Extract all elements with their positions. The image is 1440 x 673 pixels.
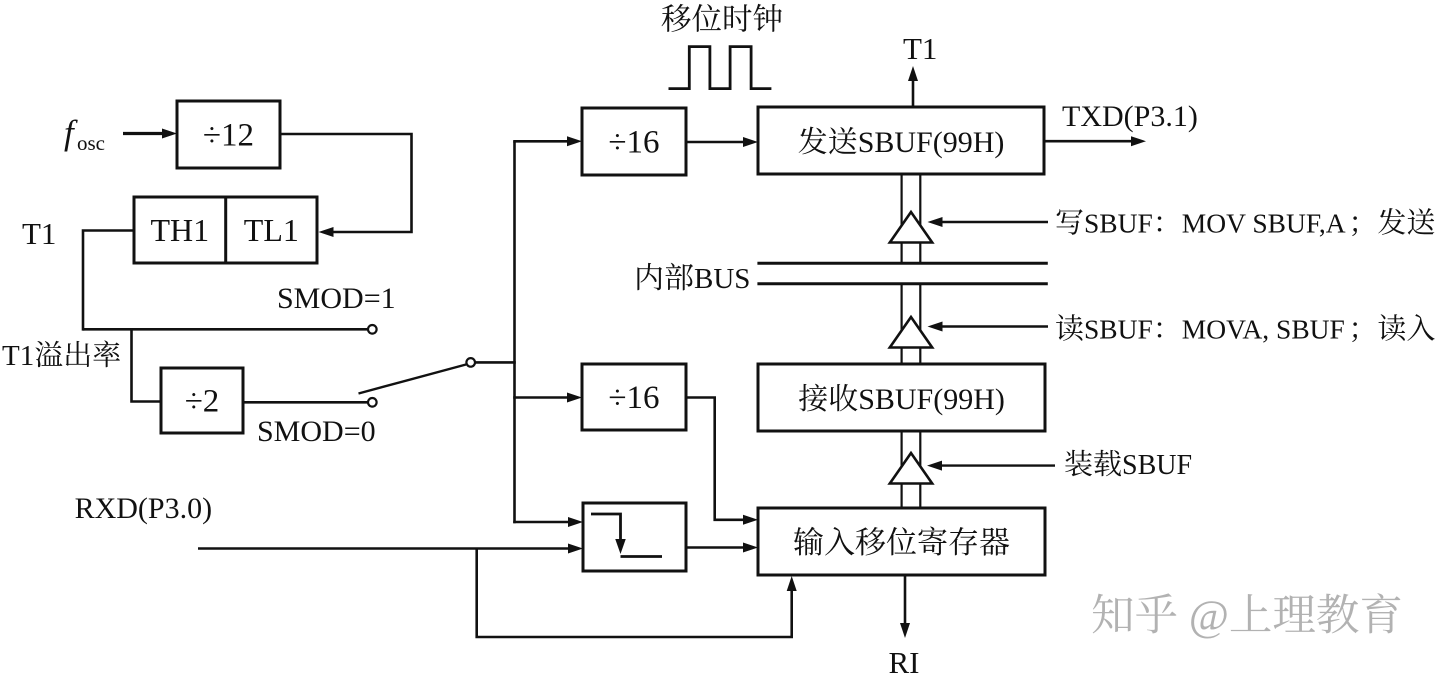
wire trunk to ÷16 (tx) — [513, 140, 568, 143]
svg-text:MOVA, SBUF: MOVA, SBUF — [1182, 314, 1345, 345]
svg-text:SMOD=1: SMOD=1 — [277, 282, 396, 315]
label 内部BUS — [637, 263, 662, 290]
switch lever SMOD — [359, 365, 467, 394]
svg-text:TL1: TL1 — [244, 212, 299, 248]
buffer gate (load SBUF) — [890, 453, 932, 484]
wire ÷16 to input shift register — [686, 398, 744, 520]
svg-text:SBUF: SBUF — [1084, 208, 1153, 239]
wire to SMOD=1 contact — [83, 328, 367, 331]
wire f_osc input arrow — [123, 132, 165, 135]
svg-text:MOV SBUF,A: MOV SBUF,A — [1182, 208, 1346, 239]
svg-text:T1: T1 — [22, 216, 56, 251]
wire trunk to edge detector — [513, 521, 569, 524]
switch contact SMOD=1 — [368, 325, 377, 334]
clock waveform symbol — [669, 47, 772, 89]
block divider ÷16 (tx) — [582, 108, 686, 175]
register TH1/TL1 — [134, 197, 317, 263]
wire TXD output arrow — [1044, 140, 1132, 143]
bus vertical pair (read) — [900, 284, 902, 364]
buffer gate (write SBUF) — [890, 212, 932, 243]
watermark 知乎@上理教育 — [1093, 594, 1133, 634]
register 接收SBUF(99H) — [758, 364, 1045, 431]
svg-text:TH1: TH1 — [151, 212, 210, 248]
block divider ÷2 — [161, 368, 243, 433]
wire ÷16 to 发送SBUF — [686, 141, 744, 144]
wire branch to ÷2 — [132, 328, 162, 402]
svg-text:RXD(P3.0): RXD(P3.0) — [75, 492, 213, 525]
wire write strobe arrow — [941, 221, 1048, 223]
register 输入移位寄存器 — [758, 508, 1045, 575]
wire baud trunk vertical — [513, 141, 516, 523]
svg-text:@: @ — [1178, 592, 1229, 640]
register 发送SBUF(99H) — [758, 107, 1044, 174]
svg-text:f: f — [64, 113, 78, 152]
wire T1 arrow up — [912, 78, 915, 107]
wire RXD feedback to shift register — [477, 549, 792, 638]
svg-text:SBUF(99H): SBUF(99H) — [858, 383, 1005, 416]
block divider ÷16 (rx) — [582, 364, 686, 430]
wire RI output arrow — [904, 575, 907, 626]
svg-text:T1: T1 — [903, 31, 937, 66]
svg-text:BUS: BUS — [694, 263, 750, 295]
svg-text:SBUF(99H): SBUF(99H) — [858, 126, 1005, 159]
bus vertical pair (load) — [900, 431, 902, 508]
svg-text:T1: T1 — [2, 340, 34, 372]
svg-text:÷16: ÷16 — [608, 125, 659, 161]
wire trunk to ÷16 (rx) — [513, 396, 568, 399]
label 读SBUF：MOVA, SBUF；读入 — [1056, 314, 1083, 341]
svg-text:SBUF: SBUF — [1122, 450, 1192, 481]
buffer gate (read SBUF) — [890, 317, 932, 348]
wire edge detector to shift register — [686, 546, 744, 549]
wire TH1 output down — [83, 231, 134, 331]
label 写SBUF：MOV SBUF,A；发送 — [1057, 209, 1083, 235]
switch contact SMOD=0 — [368, 398, 377, 407]
svg-text:SBUF: SBUF — [1084, 314, 1153, 345]
wire ÷2 output — [243, 401, 368, 404]
internal bus line upper — [757, 262, 1047, 265]
bus vertical pair (send) — [900, 174, 902, 262]
wire ÷12 output to TL1 — [280, 134, 412, 232]
wire pole to trunk — [475, 361, 516, 364]
wire read strobe arrow — [941, 325, 1048, 327]
svg-text:TXD(P3.1): TXD(P3.1) — [1062, 100, 1198, 133]
block divider ÷12 — [177, 101, 280, 168]
svg-text:÷2: ÷2 — [185, 384, 220, 420]
switch pole contact — [466, 358, 475, 367]
label 装载SBUF — [1065, 450, 1092, 477]
svg-text:RI: RI — [889, 645, 920, 673]
internal bus line lower — [757, 282, 1047, 285]
svg-text:SMOD=0: SMOD=0 — [257, 415, 376, 448]
label 移位时钟 (shift clock) — [662, 4, 691, 32]
wire load strobe arrow — [941, 464, 1055, 466]
svg-text:osc: osc — [77, 131, 105, 155]
svg-text:÷12: ÷12 — [203, 118, 254, 154]
svg-text:÷16: ÷16 — [608, 380, 659, 416]
falling-edge symbol — [591, 514, 621, 540]
wire RXD input — [198, 547, 569, 550]
block edge detector — [583, 503, 686, 571]
